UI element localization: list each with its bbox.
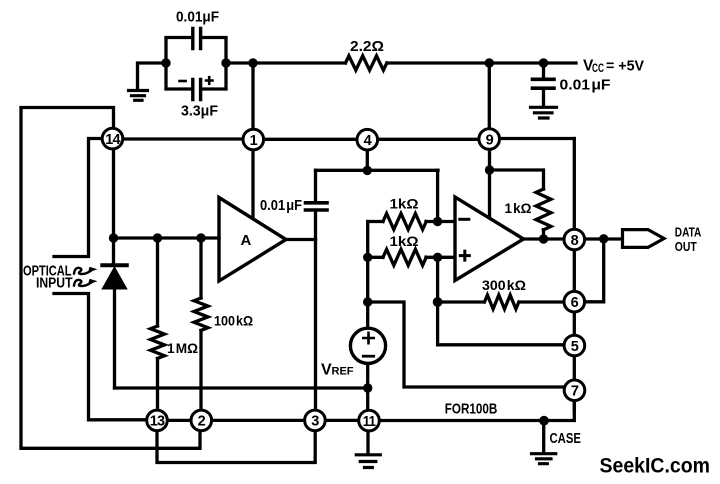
wire node4 down to minus input bbox=[436, 170, 439, 221]
svg-text:1kΩ: 1kΩ bbox=[390, 195, 419, 211]
svg-text:1: 1 bbox=[250, 133, 258, 149]
svg-text:2.2Ω: 2.2Ω bbox=[350, 38, 384, 55]
node dot 300k left bbox=[433, 297, 443, 307]
node dot rail-bypass bbox=[539, 58, 548, 67]
wire 1k bottom bbox=[542, 230, 545, 239]
pin 6 bbox=[564, 291, 585, 312]
wire top supply rail y=63 bbox=[226, 61, 576, 64]
capacitor C4 0.01uF coupling bbox=[306, 170, 328, 239]
pin 3 bbox=[305, 410, 326, 431]
svg-text:3: 3 bbox=[311, 414, 319, 430]
node dot rail-gnd bbox=[161, 58, 170, 67]
pin 4 bbox=[357, 129, 378, 150]
svg-text:CC: CC bbox=[592, 63, 604, 75]
svg-text:3.3μF: 3.3μF bbox=[181, 103, 218, 120]
arrowhead optical 1 bbox=[88, 267, 98, 273]
svg-text:7: 7 bbox=[571, 384, 579, 400]
svg-text:= +5V: = +5V bbox=[606, 58, 644, 75]
ground bbox=[129, 91, 148, 101]
svg-text:1 kΩ: 1 kΩ bbox=[505, 200, 532, 216]
pin circles bbox=[102, 128, 585, 431]
svg-text:300 kΩ: 300 kΩ bbox=[482, 277, 526, 293]
svg-text:9: 9 bbox=[486, 132, 494, 148]
resistor R7 300kohm bbox=[438, 295, 564, 309]
resistor R5 1k upper bbox=[368, 214, 455, 230]
resistor R1 2.2ohm bbox=[346, 56, 387, 70]
svg-text:5: 5 bbox=[571, 339, 579, 355]
wire 1k top feed bbox=[490, 170, 544, 189]
wire optical lower stub to pin13 bbox=[54, 294, 147, 420]
op-amp U2 comparator bbox=[455, 197, 524, 281]
svg-text:8: 8 bbox=[571, 233, 579, 249]
svg-text:0.01 μF: 0.01 μF bbox=[260, 197, 302, 214]
node dot pin9 junction bbox=[485, 165, 494, 174]
wire pin row y=139 bbox=[123, 137, 575, 141]
optical input arrow 2 bbox=[74, 280, 91, 286]
node dot input-100k bbox=[196, 233, 205, 242]
resistor R4 1k vertical bbox=[536, 189, 551, 230]
wire diode node to vref bottom y=388 bbox=[115, 386, 368, 389]
wire bottom pin row y=420.4 bbox=[167, 401, 574, 421]
pin 11 bbox=[359, 410, 380, 431]
svg-text:INPUT: INPUT bbox=[36, 274, 73, 291]
arrowhead optical 2 bbox=[88, 279, 98, 285]
net label VCC=+5V bbox=[583, 58, 644, 76]
svg-text:1 MΩ: 1 MΩ bbox=[167, 340, 198, 356]
pin number labels bbox=[105, 132, 579, 430]
node dot r6 left bbox=[363, 253, 372, 262]
node dot minus input bbox=[433, 217, 442, 226]
node dot vref top bbox=[363, 297, 372, 306]
ground case bbox=[532, 454, 556, 464]
resistor R6 1k lower bbox=[368, 249, 455, 265]
wire node4 horizontal y=170.3 bbox=[316, 169, 439, 172]
node dot input-1M bbox=[153, 233, 162, 242]
wire pin4 stub bbox=[366, 150, 369, 171]
svg-text:DATA: DATA bbox=[675, 226, 702, 240]
resistor R2 1Mohm vertical bbox=[151, 238, 165, 410]
wire pin14 left to optical bbox=[54, 139, 102, 257]
node dot plus input bbox=[433, 253, 442, 262]
wire pin8 to pin6 feedback bbox=[585, 239, 604, 302]
label VREF bbox=[321, 361, 354, 378]
wire plus input down to pin5 bbox=[438, 257, 564, 345]
capacitor C1 0.01uF top bypass bbox=[166, 29, 226, 90]
svg-text:A: A bbox=[241, 232, 252, 249]
node dot rail-pin9 bbox=[485, 58, 494, 67]
pin 1 bbox=[243, 129, 264, 150]
wire vref top column bbox=[366, 222, 369, 329]
pin 7 bbox=[564, 380, 585, 401]
node dot case bbox=[539, 416, 549, 426]
svg-text:6: 6 bbox=[571, 295, 579, 311]
label DATA OUT bbox=[675, 226, 702, 254]
pin 13 bbox=[147, 410, 168, 431]
wire pin8-6-5-7 chain bbox=[573, 250, 576, 410]
svg-text:SeekIC.com: SeekIC.com bbox=[600, 454, 711, 478]
pin 9 bbox=[479, 129, 500, 150]
wire opamp output to pin3 column bbox=[286, 240, 316, 411]
node dot rail-cap bbox=[221, 58, 230, 67]
capacitor C2 3.3uF electrolytic bbox=[180, 77, 213, 99]
pin 2 bbox=[191, 410, 212, 431]
wire case ground stub bbox=[542, 421, 545, 453]
wire pin1 column bbox=[251, 63, 254, 219]
optical input arrow 1 bbox=[74, 268, 91, 274]
capacitor C3 0.01uF vcc bypass bbox=[533, 63, 555, 106]
resistor R3 100kohm vertical bbox=[194, 238, 208, 410]
ground bbox=[356, 455, 380, 468]
wire pin11 ground stub bbox=[366, 431, 369, 453]
node dot rail-pin1 bbox=[248, 58, 257, 67]
wire pin14 input column bbox=[114, 149, 220, 238]
node dot input-diode bbox=[109, 233, 118, 242]
label OPTICAL INPUT bbox=[23, 263, 73, 292]
wire comparator output bbox=[524, 237, 622, 240]
wire pin9 column bbox=[488, 63, 492, 217]
svg-text:13: 13 bbox=[150, 414, 165, 430]
node dot output feedback bbox=[599, 234, 608, 243]
pin 14 bbox=[102, 128, 123, 149]
svg-text:REF: REF bbox=[332, 365, 354, 377]
node dot 1k output bbox=[539, 234, 548, 243]
photodiode D1 bbox=[102, 238, 127, 388]
op-amp U1 A bbox=[219, 198, 286, 282]
node dot vref bottom bbox=[363, 383, 372, 392]
wire pin13 to pin3 lower link bbox=[157, 431, 315, 463]
svg-text:FOR100B: FOR100B bbox=[445, 401, 498, 418]
wire vref node to pin7 bbox=[368, 302, 566, 387]
voltage source VREF bbox=[350, 328, 385, 363]
svg-text:11: 11 bbox=[363, 414, 376, 430]
svg-text:CASE: CASE bbox=[550, 431, 582, 447]
wire ground stub to bypass pair bbox=[138, 63, 167, 88]
svg-text:1kΩ: 1kΩ bbox=[390, 233, 419, 249]
pin 8 bbox=[564, 229, 585, 250]
svg-text:14: 14 bbox=[105, 132, 120, 148]
svg-text:100 kΩ: 100 kΩ bbox=[214, 312, 253, 328]
wire vref bottom to pin11 bbox=[366, 364, 369, 411]
wire comparator supply vertical x=574 bbox=[573, 139, 576, 230]
svg-text:0.01μF: 0.01μF bbox=[176, 8, 219, 25]
node dot pin4 junction bbox=[363, 166, 372, 175]
svg-text:OUT: OUT bbox=[675, 240, 697, 254]
connector DATA OUT bbox=[623, 230, 665, 248]
svg-text:2: 2 bbox=[198, 414, 206, 430]
svg-text:V: V bbox=[321, 361, 332, 378]
wire pin14 top loop bbox=[21, 108, 200, 449]
ground bbox=[531, 107, 557, 118]
svg-text:0.01 μF: 0.01 μF bbox=[560, 77, 611, 94]
svg-text:4: 4 bbox=[364, 133, 372, 149]
pin 5 bbox=[564, 335, 585, 356]
